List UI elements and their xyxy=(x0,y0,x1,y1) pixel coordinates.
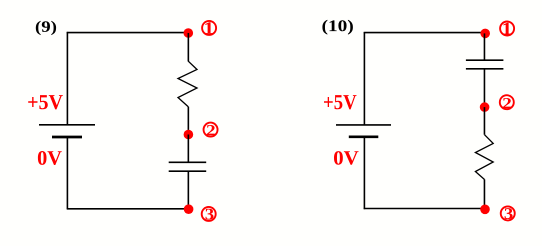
node 1 label circuit 9 xyxy=(202,21,216,35)
node 1 label circuit 10 xyxy=(500,22,514,36)
wire node2 to capacitor circuit 9 xyxy=(187,135,189,163)
wire bottom horizontal circuit 9 xyxy=(67,208,189,210)
wire capacitor to node3 circuit 9 xyxy=(187,171,189,209)
wire capacitor to node2 circuit 10 xyxy=(483,69,485,107)
resistor R circuit 10 xyxy=(475,135,493,180)
wire left vertical lower circuit 10 xyxy=(363,137,365,209)
battery V1 positive plate xyxy=(39,124,95,126)
wire resistor to node2 circuit 9 xyxy=(187,107,189,135)
node 1 dot circuit 10 xyxy=(480,29,490,39)
node 3 dot circuit 9 xyxy=(184,204,194,214)
capacitor C circuit 10 xyxy=(466,60,504,69)
wire node1 to resistor circuit 9 xyxy=(187,33,189,62)
battery V2 positive plate xyxy=(336,124,391,126)
battery V2 negative plate xyxy=(349,135,379,138)
wire node1 to capacitor circuit 10 xyxy=(483,33,485,60)
capacitor C circuit 9 xyxy=(169,162,207,171)
resistor R circuit 9 xyxy=(178,61,197,107)
wire node2 to resistor circuit 10 xyxy=(483,107,485,135)
label +5V circuit 10 xyxy=(324,95,357,109)
wire resistor to node3 circuit 10 xyxy=(483,179,485,209)
wire top horizontal circuit 9 xyxy=(67,32,189,34)
node 3 dot circuit 10 xyxy=(480,205,490,215)
wire left vertical upper circuit 10 xyxy=(363,32,365,125)
node 3 label circuit 10 xyxy=(501,206,515,220)
label 0V xyxy=(38,151,62,165)
node 2 dot circuit 9 xyxy=(184,130,194,140)
node 2 label circuit 10 xyxy=(500,95,514,109)
wire top horizontal circuit 10 xyxy=(364,32,485,34)
battery V1 negative plate xyxy=(52,136,82,139)
wire bottom horizontal circuit 10 xyxy=(364,208,485,210)
wire left vertical upper circuit 9 xyxy=(66,32,68,125)
node 1 dot circuit 9 xyxy=(184,28,194,38)
label +5V xyxy=(28,95,63,109)
wire left vertical lower circuit 9 xyxy=(66,137,68,209)
node 2 label circuit 9 xyxy=(204,123,218,137)
label (9) xyxy=(36,21,56,35)
label (10) xyxy=(322,20,353,35)
label 0V circuit 10 xyxy=(334,151,359,165)
node 2 dot circuit 10 xyxy=(480,102,490,112)
node 3 label circuit 9 xyxy=(202,207,216,221)
